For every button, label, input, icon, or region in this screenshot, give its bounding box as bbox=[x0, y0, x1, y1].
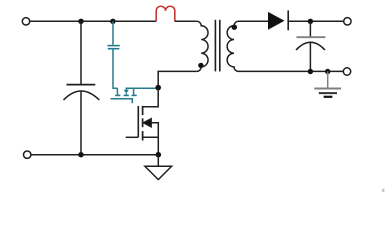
capacitor C2 lead (teal) bbox=[112, 21, 114, 45]
capacitor C2 plates (teal) bbox=[107, 46, 119, 49]
capacitor C3 curved plate bbox=[296, 42, 325, 50]
earth ground bar 2 bbox=[319, 92, 337, 94]
inductor L1 (red) bbox=[156, 6, 175, 21]
junction dot D3 bbox=[155, 85, 161, 91]
MOSFET Q2 body arrow bbox=[124, 88, 129, 96]
node IN+ terminal top-left bbox=[22, 18, 29, 25]
diode D1 cathode bar bbox=[287, 10, 289, 30]
transformer T1 primary winding bbox=[197, 21, 208, 71]
junction dot D6 bbox=[308, 19, 313, 24]
junction dot D4 bbox=[78, 152, 83, 157]
earth ground bar 1 (gray) bbox=[314, 88, 341, 90]
wire bottom rail right bbox=[239, 70, 344, 72]
junction dot D8 bbox=[325, 69, 330, 74]
junction dot D1 bbox=[78, 19, 83, 24]
transformer T1 primary phase dot bbox=[198, 63, 203, 68]
MOSFET Q1 channel bars bbox=[142, 106, 144, 141]
wire Q2 to node D3 (teal) bbox=[126, 87, 158, 89]
capacitor C1 lead bottom bbox=[80, 91, 82, 155]
node OUT+ terminal top-right bbox=[344, 18, 351, 25]
node IN- terminal bottom-left bbox=[24, 151, 31, 158]
MOSFET Q1 gate lead bbox=[126, 136, 139, 138]
capacitor C3 plate (gray) bbox=[297, 36, 326, 38]
ground triangle (signal ground) bbox=[145, 155, 172, 180]
capacitor C3 lead top bbox=[309, 21, 311, 38]
node OUT- terminal bottom-right bbox=[343, 68, 350, 75]
capacitor C3 lead bottom bbox=[309, 42, 311, 71]
transformer T1 core bbox=[215, 20, 219, 72]
MOSFET Q2 source bar bbox=[133, 88, 135, 94]
wire top rail inductor to transformer bbox=[175, 20, 197, 22]
transformer T1 secondary winding bbox=[227, 21, 238, 71]
capacitor C1 curved plate bbox=[64, 91, 100, 100]
MOSFET Q1 gate bar bbox=[137, 106, 139, 137]
wire C2 to Q2 (teal) bbox=[112, 50, 117, 89]
capacitor C1 lead top bbox=[80, 21, 82, 84]
junction dot D2 bbox=[110, 19, 115, 24]
MOSFET Q1 source lead bbox=[143, 137, 159, 154]
wire top rail left bbox=[30, 20, 156, 22]
wire D3 to Q1 drain bbox=[143, 88, 159, 107]
wire diode to output top bbox=[288, 20, 343, 22]
diode D1 anode triangle bbox=[268, 12, 285, 30]
wire primary bottom to node D3 bbox=[158, 71, 197, 87]
MOSFET Q1 body arrow bbox=[143, 119, 151, 127]
MOSFET Q1 body wire bbox=[151, 123, 158, 138]
wire secondary top to diode bbox=[239, 20, 269, 22]
capacitor C1 plate bbox=[67, 84, 96, 86]
earth ground lead (gray) bbox=[327, 72, 329, 89]
transformer T1 secondary phase dot bbox=[232, 25, 237, 30]
corner artifact mark bbox=[382, 189, 384, 192]
MOSFET Q2 gate bbox=[111, 99, 133, 104]
earth ground bar 3 bbox=[324, 96, 333, 98]
wire bottom rail left bbox=[31, 154, 158, 156]
junction dot D5 bbox=[156, 152, 162, 158]
junction dot D7 bbox=[308, 69, 313, 74]
MOSFET Q2 (teal, rotated) drain bar bbox=[116, 88, 118, 94]
MOSFET Q2 channel dashes bbox=[115, 94, 137, 96]
